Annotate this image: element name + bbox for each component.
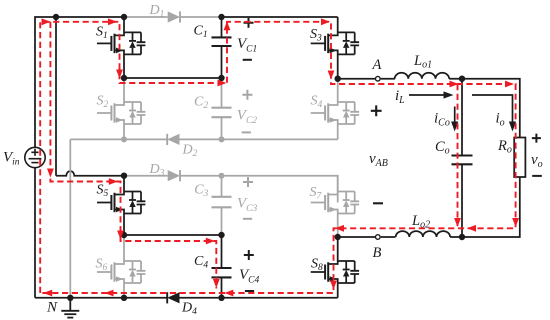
transistor S5 xyxy=(97,176,145,235)
diode D2 xyxy=(167,134,179,145)
junction Vin tap on top rail xyxy=(53,14,59,20)
wire Co branch vertical xyxy=(461,79,463,237)
red arrowhead C4 bottom xyxy=(213,279,220,288)
transistor S3 xyxy=(311,17,359,79)
red arrowhead Ro bottom xyxy=(512,218,519,227)
junction S5 source / S6 drain xyxy=(121,232,127,238)
wire C3 vertical gray xyxy=(221,176,223,235)
junction C3 bottom / C4 top xyxy=(218,232,224,238)
wire red branch through Co xyxy=(457,84,459,226)
junction C4 bottom on bottom rail xyxy=(218,295,224,301)
wire C4 vertical xyxy=(221,235,223,298)
wire gray vertical to bottom rail xyxy=(69,139,71,297)
red arrowhead C1 top xyxy=(224,21,231,30)
red arrowhead into C1 bottom xyxy=(218,80,227,87)
junction C2 bottom on D2 row xyxy=(219,136,225,142)
red arrowhead Co bottom xyxy=(454,218,461,227)
red arrowhead on node A row xyxy=(450,81,459,88)
red arrowhead into C4 top xyxy=(206,238,215,245)
wire C1 vertical xyxy=(221,17,223,78)
wire top rail middle gray through D1 xyxy=(124,16,222,18)
red arrowhead on return row xyxy=(467,225,476,232)
svg-text:A: A xyxy=(372,57,382,73)
transistor S1 xyxy=(97,17,145,78)
junction C1 bottom / C2 top xyxy=(218,75,224,81)
capacitor C4 xyxy=(212,268,232,277)
red arrowhead into middle row xyxy=(47,169,54,178)
wire Ro bottom to B row xyxy=(462,177,520,237)
wire A row xyxy=(338,78,395,80)
junction node N on bottom rail xyxy=(67,295,73,301)
wire top rail right xyxy=(222,16,338,18)
diode D4 xyxy=(167,292,179,303)
red arrowhead into S8 xyxy=(335,225,344,232)
red arrowhead S8 source xyxy=(330,281,337,290)
junction S7 source / S8 drain / node B row xyxy=(335,234,341,240)
label vAB with polarity xyxy=(371,105,382,116)
svg-text:N: N xyxy=(46,300,58,316)
wire middle row gray through D3 to S7 xyxy=(124,176,338,203)
wire C4 row xyxy=(124,234,222,236)
red arrowhead S3 source xyxy=(328,71,335,80)
junction C3 top on middle row xyxy=(219,173,225,179)
red arrowhead on bottom rail left xyxy=(105,290,114,297)
transistor S7 xyxy=(311,176,359,237)
junction S2 source on D2 row xyxy=(121,136,127,142)
junction C1 top on top rail xyxy=(218,14,224,20)
red arrowhead into Ro xyxy=(505,81,514,88)
junction S3 source / S4 drain / node A row xyxy=(335,76,341,82)
transistor S4 xyxy=(311,79,359,140)
junction S1 drain on top rail xyxy=(121,14,127,20)
annotation iL arrow xyxy=(409,94,448,96)
wire Lo1 right to Ro top xyxy=(449,79,520,138)
red arrowhead top-left corner xyxy=(42,18,51,25)
red arrowhead on bottom rail right of C4 xyxy=(224,290,233,297)
red arrowhead into S3 xyxy=(321,18,330,25)
red arrowhead into S1 xyxy=(108,18,117,25)
capacitor C3 xyxy=(212,197,232,208)
junction S5 drain on middle row xyxy=(121,173,127,179)
source Vin xyxy=(25,147,45,167)
junction Co bottom xyxy=(459,234,465,240)
junction S1 source / S2 drain xyxy=(121,75,127,81)
label vo with polarity xyxy=(532,134,541,143)
red arrowhead S1 source xyxy=(116,70,123,79)
red arrowhead S5 source xyxy=(117,231,124,240)
ground at node N xyxy=(61,298,79,318)
wire red current loop outer xyxy=(40,22,515,293)
red arrowhead into S5 xyxy=(109,178,118,185)
wire left vertical below Vin xyxy=(34,168,36,298)
junction Co top xyxy=(459,76,465,82)
capacitor C1 xyxy=(212,37,232,46)
transistor S2 xyxy=(97,78,145,139)
node A xyxy=(376,76,381,81)
wire top rail left xyxy=(35,17,124,148)
capacitor Co xyxy=(452,156,473,165)
wire row S1 source to C1 bottom xyxy=(124,77,222,79)
wire Vin tap vertical to middle row xyxy=(55,17,57,176)
inductor Lo2 xyxy=(396,231,450,237)
wire B row xyxy=(338,236,396,238)
inductor Lo1 xyxy=(395,73,449,79)
wire middle row with hop xyxy=(56,171,124,176)
diode D1 xyxy=(168,11,180,22)
node B xyxy=(376,235,381,240)
transistor S6 xyxy=(97,235,145,298)
capacitor C2 xyxy=(212,108,232,118)
red arrowhead bottom-left corner xyxy=(43,290,52,297)
wire C2 vertical gray xyxy=(221,78,223,139)
annotation io arrow xyxy=(472,95,513,127)
wire bottom rail through D4 xyxy=(35,297,338,299)
svg-text:B: B xyxy=(373,245,382,261)
wire Lo2 right to Co bottom xyxy=(450,236,462,238)
resistor Ro xyxy=(514,138,525,178)
transistor S8 xyxy=(311,237,359,298)
junction S6 source on bottom rail xyxy=(121,295,127,301)
wire red branch through S5 and C4 xyxy=(50,22,216,289)
diode D3 xyxy=(168,170,180,181)
annotation iCo arrow xyxy=(454,107,456,127)
wire D2 row gray xyxy=(70,138,337,140)
